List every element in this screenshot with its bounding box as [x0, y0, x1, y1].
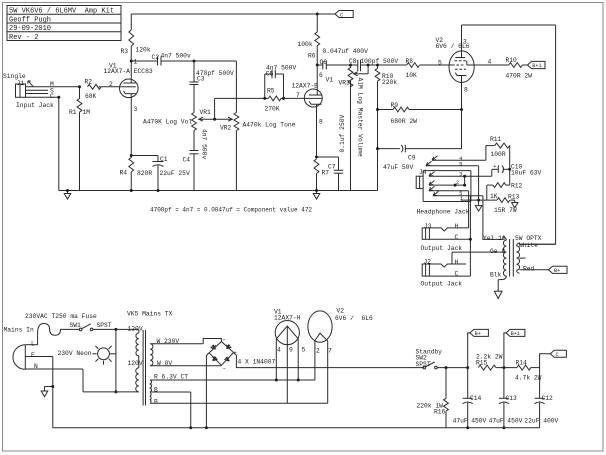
svg-text:L: L [31, 340, 35, 347]
resistor R13 15R 7W [461, 198, 515, 203]
svg-text:B: B [154, 398, 158, 405]
svg-text:SPST: SPST [416, 361, 431, 368]
svg-text:Input Jack: Input Jack [16, 102, 54, 109]
ground at R13 [512, 200, 518, 208]
svg-text:Rev - 2: Rev - 2 [9, 34, 38, 42]
svg-text:1K: 1K [490, 193, 498, 200]
tag B+1 (psu) [504, 329, 525, 367]
svg-text:N: N [34, 363, 38, 370]
input jack J1 [16, 81, 80, 98]
svg-text:5W VK6V6 / 6L6MV Amp Kit: 5W VK6V6 / 6L6MV Amp Kit [9, 8, 114, 16]
svg-text:B+1: B+1 [532, 63, 541, 69]
svg-text:C: C [455, 271, 459, 278]
svg-text:E: E [31, 352, 35, 359]
capacitor C3 470pf [190, 61, 199, 113]
VR3 wiper [354, 65, 369, 76]
feedback resistor R9 680R 2W [378, 107, 462, 112]
svg-text:2: 2 [109, 81, 113, 88]
svg-text:120k: 120k [136, 46, 151, 53]
wire to V1B grid [284, 97, 310, 99]
svg-text:R 6.3V CT: R 6.3V CT [154, 373, 188, 380]
transformer OPTX core [510, 239, 514, 277]
svg-text:Mains In: Mains In [4, 327, 34, 334]
svg-text:120V: 120V [128, 326, 143, 333]
svg-text:400V: 400V [543, 418, 558, 425]
J4 contact levers and wires [426, 156, 486, 276]
tag B+1 (screen) [528, 61, 546, 68]
svg-text:B+: B+ [554, 268, 560, 274]
wire L junction down to N line [115, 329, 117, 392]
svg-text:Headphone Jack: Headphone Jack [417, 209, 470, 216]
bridge diodes [211, 345, 231, 361]
resistor R14 4.7k 2W [517, 365, 531, 370]
svg-text:47uF 50V: 47uF 50V [383, 164, 413, 171]
svg-text:1: 1 [134, 58, 138, 65]
svg-text:C5: C5 [266, 71, 274, 78]
svg-text:230V Neon: 230V Neon [58, 350, 92, 357]
svg-text:C4: C4 [183, 157, 191, 164]
svg-text:Ge 8: Ge 8 [490, 248, 505, 255]
capacitor C8 100pf 500V [351, 60, 378, 71]
svg-text:C8 100pf 500V: C8 100pf 500V [349, 58, 398, 65]
cathode resistor R4 [129, 156, 134, 191]
coupling capacitor C6 0.047uf 400V [317, 61, 350, 70]
svg-text:A470k Log Tone: A470k Log Tone [243, 121, 296, 128]
svg-text:J4: J4 [419, 169, 427, 176]
heater V2 6V6/6L6 [308, 311, 332, 403]
wire wiper node to R5/C5 [215, 97, 265, 99]
ground symbol mid [313, 191, 320, 200]
resistor R11 100R [486, 143, 510, 185]
svg-text:R3: R3 [121, 48, 129, 55]
svg-text:R16: R16 [434, 409, 446, 416]
svg-text:VR3: VR3 [339, 79, 351, 86]
bridge 4 X 1N4007 [209, 342, 234, 366]
pentode V2 6V6/6L6 [449, 25, 509, 110]
svg-text:0.1uf 250V: 0.1uf 250V [339, 114, 346, 152]
wire jack sleeve down [58, 97, 60, 190]
bleeder resistor R16 220k 1W [444, 368, 449, 428]
filter capacitor C13 47uF 450V [499, 368, 509, 428]
capacitor C7 0.1uf 250V [317, 157, 344, 191]
svg-text:R13: R13 [508, 194, 520, 201]
resistor R15 2.2k 2W [478, 365, 496, 370]
svg-text:5: 5 [459, 161, 462, 167]
svg-text:7: 7 [296, 92, 300, 99]
svg-text:270K: 270K [265, 106, 280, 113]
OPTX secondary coil (left) [452, 237, 506, 291]
svg-text:J1: J1 [17, 80, 25, 87]
headphone jack J4 [416, 171, 471, 202]
svg-text:B+: B+ [475, 331, 481, 337]
plate resistor R6 100k [315, 14, 320, 65]
svg-text:J3: J3 [424, 223, 432, 230]
svg-text:W 0V: W 0V [157, 360, 172, 367]
svg-text:12AX7-A ECC83: 12AX7-A ECC83 [104, 68, 153, 75]
svg-text:4 X 1N4007: 4 X 1N4007 [238, 358, 276, 365]
svg-text:R7: R7 [322, 170, 330, 177]
svg-text:100k: 100k [298, 41, 313, 48]
resistor R12 1K [487, 183, 510, 200]
svg-text:12AX7-B: 12AX7-B [292, 82, 319, 89]
svg-text:5W OPTX: 5W OPTX [515, 235, 542, 242]
V2 labels [436, 37, 492, 93]
svg-text:A1M Log Master Volume: A1M Log Master Volume [357, 78, 364, 158]
svg-text:B+1: B+1 [511, 331, 520, 337]
title block [7, 6, 121, 41]
ground symbol left [64, 191, 71, 200]
output jack J2 [422, 252, 470, 276]
VK5 secondary W winding [150, 344, 221, 366]
potentiometer VR2 A470k Log Tone [234, 113, 239, 191]
tag C (psu) [540, 350, 567, 367]
svg-text:2: 2 [456, 180, 459, 186]
svg-text:10uF 63V: 10uF 63V [511, 170, 541, 177]
svg-text:C9: C9 [408, 155, 416, 162]
earth wire from E pin [41, 357, 53, 428]
svg-text:120V: 120V [128, 360, 143, 367]
svg-text:V1: V1 [326, 76, 334, 83]
svg-text:W 230V: W 230V [157, 338, 180, 345]
svg-text:C6: C6 [320, 59, 328, 66]
svg-text:R15: R15 [476, 359, 488, 366]
capacitor C2 [158, 57, 195, 66]
svg-text:470R 2W: 470R 2W [506, 73, 533, 80]
svg-text:29-09-2010: 29-09-2010 [9, 25, 51, 33]
svg-text:R6: R6 [308, 53, 316, 60]
svg-text:SPST: SPST [97, 322, 112, 329]
svg-text:VR2: VR2 [220, 124, 232, 131]
svg-text:C: C [455, 234, 459, 241]
output jack J3 [422, 228, 470, 239]
svg-text:0.047uf 400V: 0.047uf 400V [323, 48, 369, 55]
wire W230V to bridge [203, 339, 221, 344]
svg-text:3: 3 [463, 39, 467, 46]
wire B to earth rail [190, 392, 192, 428]
svg-text:47uF: 47uF [453, 418, 468, 425]
filter capacitor C14 47uF 450V [463, 368, 473, 428]
capacitor C10 10uF 63V [465, 165, 510, 176]
svg-text:4n7 500v: 4n7 500v [161, 53, 191, 60]
svg-text:~: ~ [223, 367, 226, 373]
svg-text:A470K Log Vol: A470K Log Vol [143, 119, 192, 126]
svg-text:100R: 100R [491, 151, 506, 158]
svg-text:3: 3 [134, 106, 138, 113]
svg-text:4: 4 [277, 347, 281, 354]
svg-text:3: 3 [459, 172, 462, 178]
svg-text:9: 9 [289, 347, 293, 354]
svg-text:5: 5 [438, 59, 442, 66]
svg-text:R2: R2 [85, 78, 93, 85]
svg-text:R9: R9 [391, 102, 399, 109]
svg-text:C2: C2 [152, 54, 160, 61]
svg-text:VK5 Mains TX: VK5 Mains TX [127, 311, 173, 318]
svg-text:R4: R4 [120, 170, 128, 177]
tag C (top) [335, 11, 353, 18]
svg-text:1M: 1M [83, 109, 91, 116]
svg-text:8: 8 [464, 86, 468, 93]
VK5 core [143, 330, 145, 406]
resistor R3 [129, 14, 134, 61]
svg-text:SW1: SW1 [70, 322, 82, 329]
resistor R8 10K [378, 63, 453, 68]
plate loop wire to OPTX [462, 25, 556, 244]
svg-text:R11: R11 [490, 136, 502, 143]
fuse 230VAC T250ma [38, 324, 80, 345]
top rail [131, 13, 335, 15]
svg-text:Geoff Pugh: Geoff Pugh [9, 16, 51, 24]
wire C2 node to VR2 top [194, 61, 236, 113]
J4 ground arrow [475, 200, 482, 211]
mains connector [13, 345, 83, 370]
svg-text:450V: 450V [471, 418, 486, 425]
title text [9, 8, 114, 42]
neon lamp 230V [92, 346, 116, 365]
svg-text:white: white [519, 242, 538, 249]
svg-text:230VAC T250 ma Fuse: 230VAC T250 ma Fuse [25, 313, 97, 320]
svg-text:~: ~ [222, 337, 225, 343]
J1 labels [3, 73, 54, 109]
screen resistor R10 470R 2W [509, 63, 528, 68]
svg-text:4.7k 2W: 4.7k 2W [515, 375, 542, 382]
svg-text:6: 6 [319, 72, 323, 79]
wiper arrows VR1/VR2 [199, 98, 232, 121]
svg-text:C: C [340, 12, 343, 18]
svg-text:Single: Single [3, 73, 26, 80]
svg-text:4n7 500V: 4n7 500V [266, 65, 296, 72]
svg-text:R1: R1 [69, 109, 77, 116]
V1A labels [104, 58, 153, 113]
capacitor C4 4n7 [190, 151, 199, 191]
triode V1B 12AX7-B [304, 65, 322, 157]
node 1 wire to C2 [131, 60, 157, 62]
svg-text:68K: 68K [85, 93, 97, 100]
transformer VK5 Mains TX primary [136, 329, 139, 392]
VK5 secondary B winding [150, 392, 328, 403]
svg-text:R10: R10 [506, 57, 518, 64]
svg-text:8: 8 [319, 118, 323, 125]
svg-text:VR1: VR1 [200, 109, 212, 116]
V1B labels [292, 72, 334, 125]
svg-text:H: H [455, 223, 459, 230]
earth rail [53, 427, 540, 429]
svg-text:C1: C1 [160, 156, 168, 163]
OPTX secondary ground arrow [494, 291, 502, 298]
svg-text:7: 7 [328, 348, 332, 355]
svg-text:2: 2 [316, 348, 320, 355]
svg-text:C7: C7 [328, 164, 336, 171]
svg-text:R12: R12 [511, 182, 523, 189]
svg-text:4n7 500v: 4n7 500v [201, 129, 208, 159]
capacitor C5 4n7 (parallel with R5) [265, 70, 284, 99]
svg-text:C13: C13 [506, 395, 518, 402]
svg-text:C12: C12 [542, 395, 554, 402]
svg-text:R5: R5 [267, 88, 275, 95]
svg-text:22uF: 22uF [524, 418, 539, 425]
grid resistor R10 220k [375, 65, 380, 191]
svg-text:22uF 25V: 22uF 25V [160, 170, 190, 177]
svg-text:10K: 10K [406, 72, 418, 79]
J4 pin numbers [456, 156, 463, 202]
N wire run [83, 369, 139, 392]
standby switch SW2 SPST [423, 362, 540, 369]
svg-text:6V6 / 6L6: 6V6 / 6L6 [335, 315, 373, 322]
OPTX primary coil (right) [517, 243, 556, 273]
svg-text:C14: C14 [470, 395, 482, 402]
switch SW1 SPST [79, 324, 138, 331]
signal ground bus [59, 190, 378, 192]
svg-text:J2: J2 [424, 259, 432, 266]
svg-text:220k: 220k [382, 79, 397, 86]
heater tube V1 12AX7-H [275, 321, 299, 404]
VK5 secondary R 6.3V winding [150, 380, 315, 392]
svg-text:Yel 16: Yel 16 [483, 235, 506, 242]
svg-text:4700pf = 4n7 = 0.0047uf = Comp: 4700pf = 4n7 = 0.0047uf = Component valu… [150, 207, 312, 214]
svg-text:H: H [455, 259, 459, 266]
svg-text:820R: 820R [137, 170, 152, 177]
resistor R1 [77, 87, 82, 191]
svg-text:+: + [493, 164, 496, 170]
svg-text:Output Jack: Output Jack [421, 281, 463, 288]
svg-text:C3: C3 [197, 75, 205, 82]
triode V1A 12AX7-A [120, 61, 139, 156]
svg-text:Blk: Blk [490, 271, 502, 278]
cathode resistor R7 [314, 159, 319, 191]
svg-text:47uF: 47uF [489, 418, 504, 425]
potentiometer VR1 A470K Log Vol [192, 113, 197, 151]
svg-text:R14: R14 [516, 359, 528, 366]
tag B+ (OPTX red) [549, 266, 568, 273]
filter capacitor C12 22uF 400V [535, 368, 545, 428]
svg-text:B: B [154, 386, 158, 393]
svg-text:C: C [50, 93, 54, 100]
OPTX labels [483, 235, 542, 278]
resistor R2 [88, 84, 124, 89]
resistor R5 270K [265, 96, 284, 101]
svg-text:5: 5 [302, 347, 306, 354]
potentiometer VR3 A1M Log Master Volume [348, 65, 353, 191]
svg-text:R8: R8 [406, 58, 414, 65]
svg-text:15R 7W: 15R 7W [494, 207, 517, 214]
svg-text:680R 2W: 680R 2W [391, 118, 418, 125]
svg-text:4: 4 [488, 59, 492, 66]
svg-text:450V: 450V [507, 418, 522, 425]
svg-text:V2: V2 [337, 308, 345, 315]
svg-text:1: 1 [460, 196, 463, 202]
bridge minus to earth [206, 353, 209, 428]
svg-text:12AX7-H: 12AX7-H [274, 315, 301, 322]
cathode bypass C9 47uF 50V [378, 110, 462, 153]
svg-text:C: C [556, 352, 559, 358]
svg-text:Red: Red [523, 266, 535, 273]
capacitor C1 22uF 25V [131, 156, 163, 191]
svg-text:Output Jack: Output Jack [421, 245, 463, 252]
tag B+ (psu) [468, 329, 489, 367]
bridge plus to HT rail [234, 353, 425, 368]
